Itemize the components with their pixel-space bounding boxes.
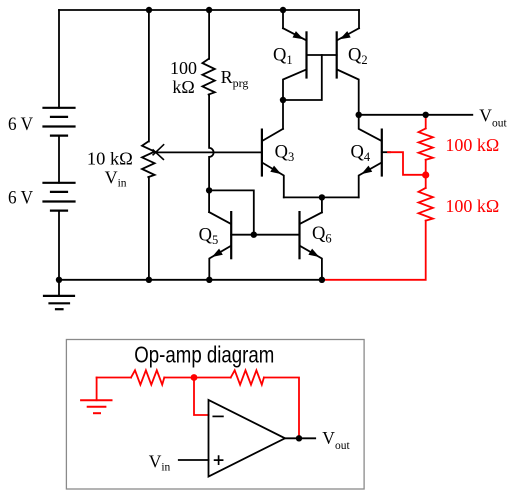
wire Q1 emitter feed: [282, 10, 284, 28]
pin minus sign: [213, 415, 223, 417]
ground (red, op-amp diagram): [81, 378, 111, 414]
pin plus sign: [215, 456, 223, 464]
svg-text:Vin: Vin: [149, 451, 171, 473]
wire resistor to output node: [264, 378, 299, 439]
wire top supply rail: [59, 9, 359, 11]
resistor feedback left (red): [131, 370, 164, 384]
svg-text:6 V: 6 V: [8, 188, 34, 208]
svg-text:10 kΩ: 10 kΩ: [87, 149, 133, 169]
potentiometer wiper arrow: [153, 145, 164, 160]
wire emitter rail to Q6 collector: [321, 197, 323, 212]
svg-text:Vout: Vout: [479, 106, 507, 130]
wire between batteries: [58, 136, 60, 183]
node op-amp output junction: [296, 435, 302, 441]
wire Q1-Q2 base tie: [307, 54, 337, 56]
svg-text:Vout: Vout: [322, 428, 350, 452]
wire lower resistor to divider node: [425, 160, 427, 188]
svg-text:Q6: Q6: [312, 224, 332, 246]
resistor feedback right (red): [231, 370, 264, 384]
svg-text:100 kΩ: 100 kΩ: [445, 196, 499, 216]
battery B1 6V: [44, 108, 75, 136]
wire left branch from rail to battery: [58, 10, 60, 108]
op-amp U1 triangle: [209, 400, 286, 477]
ground symbol: [44, 280, 74, 309]
wire red feedback bottom rail: [322, 221, 426, 280]
wire op-amp output: [285, 437, 315, 439]
svg-text:Q2: Q2: [348, 46, 368, 67]
wire between resistors: [164, 377, 230, 379]
wire Q3-Q4 emitter rail: [284, 196, 359, 198]
transistor Q4: [359, 115, 390, 197]
svg-text:Rprg: Rprg: [221, 67, 249, 90]
svg-text:Q4: Q4: [351, 143, 371, 165]
svg-text:Q5: Q5: [199, 225, 219, 247]
transistor Q3: [262, 129, 284, 198]
op-amp diagram frame: [66, 340, 364, 490]
wire battery to ground rail: [58, 211, 60, 280]
transistor Q1: [283, 28, 307, 100]
svg-text:Vin: Vin: [105, 168, 127, 190]
wire bases to Q1 collector: [283, 55, 322, 100]
wire Q5-Q6 base rail: [231, 234, 299, 236]
battery B2 6V: [44, 183, 75, 211]
wire Q5 collector-base tie: [209, 190, 254, 234]
svg-text:Q1: Q1: [273, 46, 293, 67]
wire wiper to Q3 base: [157, 151, 261, 153]
svg-text:Op-amp diagram: Op-amp diagram: [134, 341, 274, 367]
transistor Q2: [337, 28, 359, 115]
svg-text:kΩ: kΩ: [172, 77, 194, 97]
wire Rprg bottom with hop over wiper wire: [209, 95, 214, 191]
wire Q4 base to divider node: [388, 152, 426, 175]
node feedback junction (red dot): [191, 374, 198, 381]
node Vout rail: [359, 114, 473, 116]
wire ground to feedback resistor: [97, 377, 131, 379]
wire Q1 collector to Q3 collector: [282, 100, 284, 129]
wire Rprg node to Q5 collector: [208, 190, 210, 212]
resistor Rprg 100k: [202, 59, 214, 95]
wire upper resistor to Vout rail: [425, 115, 427, 129]
wire Q2 emitter feed: [358, 10, 360, 28]
transistor Q5: [209, 212, 231, 280]
node divider midpoint (red dot): [422, 171, 429, 178]
svg-text:100: 100: [170, 58, 197, 78]
resistor upper 100k (red): [419, 128, 433, 159]
wire inverting input: [194, 378, 209, 416]
wire potentiometer bottom branch: [148, 177, 150, 280]
wire bottom ground rail: [59, 279, 322, 281]
wire non-inverting input: [179, 459, 209, 461]
svg-text:Q3: Q3: [275, 143, 295, 165]
wire Rprg top branch: [208, 10, 210, 59]
potentiometer 10k Vin: [142, 142, 155, 178]
svg-text:6 V: 6 V: [8, 115, 34, 135]
transistor Q6: [300, 212, 322, 280]
resistor lower 100k (red): [419, 188, 433, 221]
svg-text:100 kΩ: 100 kΩ: [445, 135, 499, 155]
wire potentiometer top branch: [148, 10, 150, 142]
